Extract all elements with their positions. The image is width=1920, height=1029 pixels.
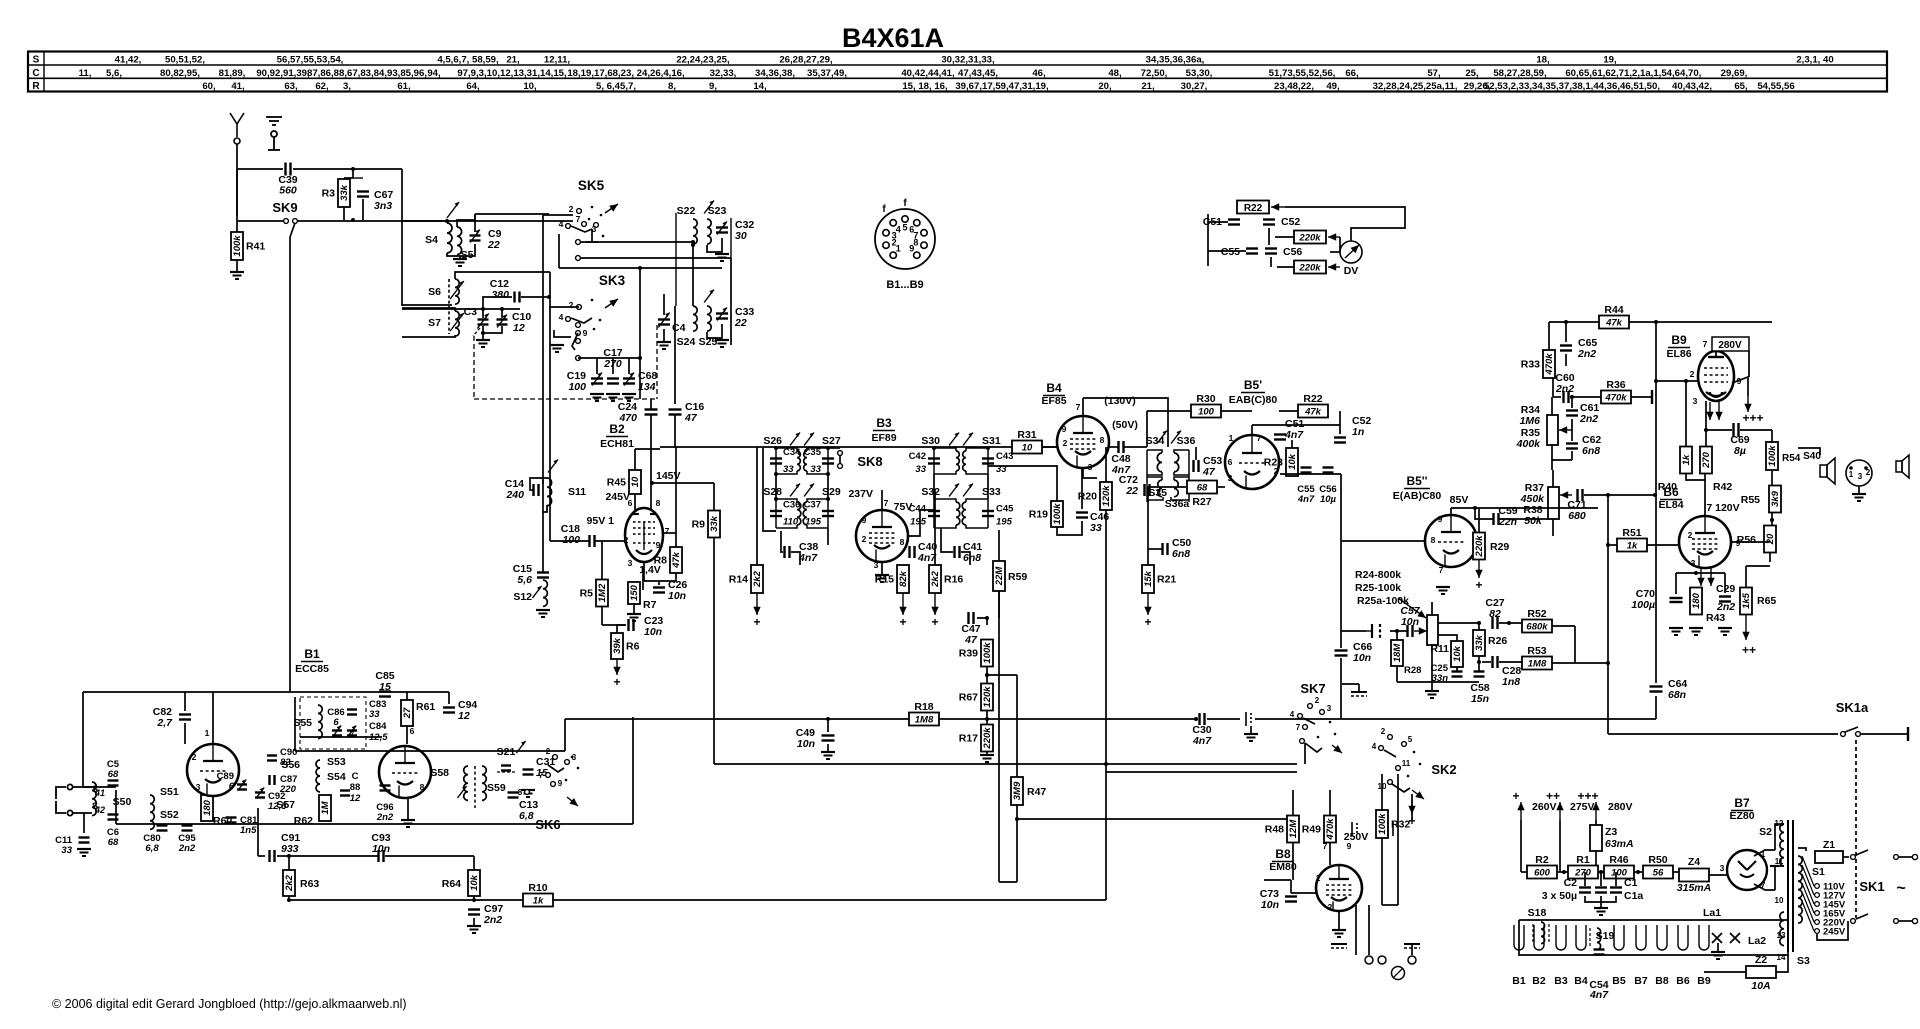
svg-text:7: 7 xyxy=(1439,565,1444,575)
transformer core xyxy=(1788,820,1793,952)
svg-text:R65: R65 xyxy=(1757,595,1776,607)
resistor R60 xyxy=(201,795,213,821)
svg-text:8: 8 xyxy=(1431,535,1436,545)
wire R20 up xyxy=(1105,447,1107,482)
wire B8 cathode xyxy=(1338,911,1340,930)
SK7 lever a xyxy=(1303,718,1315,724)
SK5 contact 3 xyxy=(594,223,599,228)
svg-text:6n8: 6n8 xyxy=(1172,548,1190,560)
svg-text:23,48,22,: 23,48,22, xyxy=(1274,81,1314,92)
svg-text:2n2: 2n2 xyxy=(1555,383,1574,395)
wire SK5 row2 xyxy=(578,241,693,243)
svg-text:2: 2 xyxy=(862,534,867,544)
svg-text:10: 10 xyxy=(1775,896,1784,905)
svg-text:15n: 15n xyxy=(1471,693,1489,705)
svg-text:SK5: SK5 xyxy=(578,178,605,193)
wire IF bus xyxy=(660,446,1058,448)
svg-text:6: 6 xyxy=(410,726,415,736)
SK3 stub wire xyxy=(554,330,571,337)
wire R32 up xyxy=(1381,774,1383,810)
svg-text:C43: C43 xyxy=(996,451,1013,462)
wire SK9 down long xyxy=(289,237,291,692)
svg-text:4: 4 xyxy=(1290,710,1295,719)
svg-text:7: 7 xyxy=(1703,339,1708,349)
svg-text:EL84: EL84 xyxy=(1658,499,1683,511)
SK5 lever xyxy=(571,226,592,232)
wire R64 down xyxy=(473,896,475,900)
wire S27 to contact xyxy=(828,447,840,449)
arrow +260V xyxy=(1517,802,1524,820)
svg-text:7: 7 xyxy=(539,771,544,780)
svg-text:S33: S33 xyxy=(982,486,1001,498)
wire SK9 to SK5 xyxy=(298,220,573,222)
wire B5p anode xyxy=(1251,425,1253,435)
capacitor C97 xyxy=(468,910,480,915)
svg-text:95V 1: 95V 1 xyxy=(587,515,615,527)
svg-text:12M: 12M xyxy=(1288,819,1299,839)
SK2 contact 4 xyxy=(1379,746,1384,751)
wire R63 up xyxy=(288,856,290,870)
wire R52 R53 join xyxy=(1574,626,1576,663)
capacitor C87 xyxy=(270,775,275,785)
transformer winding heater xyxy=(1780,912,1784,946)
ground C17b xyxy=(606,394,620,401)
svg-text:S12: S12 xyxy=(513,591,532,603)
svg-text:S21: S21 xyxy=(497,746,516,758)
svg-text:2: 2 xyxy=(1381,727,1386,736)
svg-text:3k9: 3k9 xyxy=(1770,490,1781,507)
wire elco gnd xyxy=(1600,896,1602,908)
svg-text:2n2: 2n2 xyxy=(1579,413,1598,425)
socket pin 7 xyxy=(921,230,927,236)
node x640 C17 xyxy=(638,356,642,360)
SK1a contact b xyxy=(1856,732,1861,737)
wire C91 right xyxy=(277,855,289,857)
SK1 contact a xyxy=(1851,855,1856,860)
svg-text:S23: S23 xyxy=(708,205,727,217)
svg-text:C45: C45 xyxy=(996,504,1014,515)
capacitor C6 xyxy=(108,815,119,820)
node SK5 x640 xyxy=(638,266,642,270)
resistor R51 xyxy=(1617,527,1647,552)
resistor R20 xyxy=(1078,482,1112,510)
svg-text:33: 33 xyxy=(1090,522,1102,534)
trimmer arrow C9 xyxy=(470,230,480,243)
svg-text:3: 3 xyxy=(196,782,201,792)
svg-text:R25-100k: R25-100k xyxy=(1355,582,1401,594)
svg-text:3 x 50µ: 3 x 50µ xyxy=(1542,890,1577,902)
wire C60 left xyxy=(1553,396,1561,398)
wire r10 bus xyxy=(289,899,1106,901)
svg-text:R61: R61 xyxy=(416,701,435,713)
wire C67 top branch xyxy=(353,177,363,179)
SK1 lever a xyxy=(1856,850,1868,855)
svg-text:9: 9 xyxy=(583,328,588,338)
svg-text:11: 11 xyxy=(1402,759,1411,768)
svg-text:65,: 65, xyxy=(1734,81,1748,92)
svg-text:53,30,: 53,30, xyxy=(1186,68,1213,79)
svg-text:56: 56 xyxy=(1653,868,1664,879)
svg-text:3: 3 xyxy=(1228,473,1233,483)
wire Z2 left xyxy=(1704,971,1746,973)
wire C28 right xyxy=(1499,661,1522,663)
wire SK1 b xyxy=(1899,920,1912,922)
svg-text:SK1a: SK1a xyxy=(1836,700,1869,715)
svg-text:S40: S40 xyxy=(1803,451,1821,462)
arrow +++ B9 xyxy=(1744,396,1751,412)
wire C1a drop xyxy=(1615,872,1617,886)
wire C73 to B8 xyxy=(1291,892,1316,894)
SK3 contact f xyxy=(576,356,581,361)
resistor Z4 xyxy=(1679,856,1709,882)
capacitor C95 xyxy=(182,826,193,831)
svg-text:100µ: 100µ xyxy=(1631,599,1655,611)
wire R47 up xyxy=(1016,675,1018,777)
capacitor C26 xyxy=(653,588,665,593)
svg-text:3: 3 xyxy=(1088,462,1093,472)
node S29 tr xyxy=(826,497,830,501)
wire B4 anode xyxy=(1082,398,1084,416)
capacitor C30 xyxy=(1200,713,1205,725)
node S22 bottom xyxy=(691,243,695,247)
svg-text:S53: S53 xyxy=(327,756,346,768)
SK1 terminal b xyxy=(1912,918,1917,923)
svg-text:3: 3 xyxy=(1858,472,1863,481)
svg-text:R44: R44 xyxy=(1604,304,1623,316)
svg-text:C52: C52 xyxy=(1281,216,1300,228)
wire C91 up left xyxy=(257,808,259,856)
svg-text:DV: DV xyxy=(1344,265,1359,277)
svg-text:6,8: 6,8 xyxy=(519,810,534,822)
wire x402 to S6 xyxy=(401,305,403,307)
svg-text:E(AB)C80: E(AB)C80 xyxy=(1393,490,1442,502)
node C10 top xyxy=(500,307,504,311)
node C28 tap xyxy=(1477,660,1481,664)
wire elco gnd bus xyxy=(1585,896,1616,902)
ground C70 xyxy=(1669,628,1683,635)
svg-text:15k: 15k xyxy=(1143,570,1154,587)
socket pin 6 xyxy=(914,220,920,226)
ground R7 xyxy=(627,614,641,621)
label 280V box xyxy=(1712,337,1749,351)
svg-text:SK1: SK1 xyxy=(1859,879,1884,894)
wire C3 gnd xyxy=(482,333,484,340)
svg-text:1k5: 1k5 xyxy=(1741,592,1752,609)
IF3 can rails xyxy=(1147,450,1189,502)
svg-text:2: 2 xyxy=(569,204,574,214)
resistor R56 xyxy=(1764,526,1776,553)
wire fb vertical a xyxy=(1607,495,1609,734)
wire C53 drop xyxy=(1195,447,1197,460)
svg-text:B8: B8 xyxy=(1275,847,1291,861)
svg-text:47k: 47k xyxy=(1304,407,1322,418)
wire R53 to fb xyxy=(1575,662,1608,664)
resistor R21 xyxy=(1142,565,1176,593)
svg-text:C55: C55 xyxy=(1221,246,1240,258)
IF can S32 S33 trim arrow right xyxy=(963,484,973,497)
wire B4 anode to 130V xyxy=(1083,398,1168,447)
wire sk7cap gnd xyxy=(1250,726,1252,734)
transformer tap 220V xyxy=(1802,892,1814,922)
wire pot top xyxy=(1431,602,1433,615)
capacitor C3 xyxy=(478,320,489,325)
S58 S59 core dashes xyxy=(474,766,476,808)
wire R16 up xyxy=(934,490,936,565)
wire Z2 right xyxy=(1776,955,1788,972)
wire C27 right xyxy=(1499,622,1522,624)
node C71 x1608 xyxy=(1606,493,1610,497)
resistor R62 xyxy=(319,795,331,821)
transformer primary S1 xyxy=(1798,856,1802,923)
ground B8 xyxy=(1332,930,1346,937)
tube socket B1..B9 circle xyxy=(875,209,935,269)
svg-text:9: 9 xyxy=(1062,424,1067,434)
wire B5p pin2 out xyxy=(1280,473,1341,475)
svg-text:1: 1 xyxy=(896,243,901,253)
resistor R46 xyxy=(1604,854,1634,879)
svg-text:22,24,23,25,: 22,24,23,25, xyxy=(676,55,730,66)
SK3 contact 2 xyxy=(577,305,582,310)
IF can S26 S27 trim arrow left xyxy=(790,433,800,446)
socket pin 8 xyxy=(921,242,927,248)
wire B1 top bus xyxy=(83,691,290,693)
svg-text:1: 1 xyxy=(1316,873,1321,883)
wire B1 box left xyxy=(115,790,117,824)
wire R8 bottom xyxy=(644,573,676,581)
capacitor C85 xyxy=(379,692,391,697)
wire C60 right xyxy=(1570,396,1601,398)
transformer tap 245V xyxy=(1802,901,1814,931)
svg-text:B5: B5 xyxy=(1612,975,1626,987)
wire pot top xyxy=(1551,397,1553,415)
resistor R11 xyxy=(1451,641,1463,667)
coil S6 xyxy=(455,279,459,304)
wire to S4 xyxy=(402,220,447,222)
svg-text:10n: 10n xyxy=(1261,899,1279,911)
wire SK1a right xyxy=(1861,733,1908,735)
svg-text:12: 12 xyxy=(350,793,361,804)
wire S32 down xyxy=(940,528,942,545)
capacitor C91 xyxy=(270,850,275,862)
svg-text:4: 4 xyxy=(1372,742,1377,751)
capacitor C4 xyxy=(658,320,670,325)
svg-text:47k: 47k xyxy=(671,551,682,569)
svg-text:33: 33 xyxy=(783,464,794,475)
svg-text:R50: R50 xyxy=(1648,854,1667,866)
SK2 lever b xyxy=(1392,784,1410,792)
resistor Z3 xyxy=(1590,825,1602,851)
svg-text:+: + xyxy=(899,615,906,629)
SK6 dots xyxy=(565,756,580,782)
node S26 bl xyxy=(774,472,778,476)
capacitor C86 xyxy=(332,731,342,736)
svg-text:6: 6 xyxy=(1228,457,1233,467)
wire R47 R59 join xyxy=(999,881,1017,883)
resistor R49 xyxy=(1302,816,1336,843)
wire C47 to R39 xyxy=(977,618,987,625)
svg-text:6n8: 6n8 xyxy=(963,552,981,564)
svg-text:220k: 220k xyxy=(1298,233,1321,244)
svg-text:B9: B9 xyxy=(1671,333,1687,347)
svg-text:33k: 33k xyxy=(1474,634,1485,651)
svg-text:8: 8 xyxy=(900,537,905,547)
SK2 contact 11 xyxy=(1396,766,1401,771)
resistor R7 xyxy=(628,582,640,604)
capacitor C80 xyxy=(157,826,168,831)
resistor R26 xyxy=(1473,630,1485,656)
svg-text:68: 68 xyxy=(108,769,119,780)
wire C4 down xyxy=(663,329,665,342)
svg-text:S36a: S36a xyxy=(1165,498,1190,510)
wire S31 out xyxy=(988,465,1058,467)
wire C93 right xyxy=(385,855,474,857)
transformer tap 110V xyxy=(1802,856,1814,886)
svg-text:+: + xyxy=(613,675,620,689)
chassis SK7 top xyxy=(1351,692,1367,696)
svg-text:++: ++ xyxy=(1546,789,1560,803)
svg-text:195: 195 xyxy=(910,517,927,528)
svg-text:195: 195 xyxy=(805,517,822,528)
wire R19 C46 join xyxy=(1057,521,1082,535)
wire S5 to SK5 xyxy=(475,213,549,215)
svg-text:S28: S28 xyxy=(763,486,782,498)
wire avc 772 xyxy=(1106,771,1297,773)
svg-text:41,42,: 41,42, xyxy=(115,55,142,66)
svg-text:34,36,38,: 34,36,38, xyxy=(755,68,795,79)
svg-text:SK7: SK7 xyxy=(1300,681,1325,696)
wire C73 up xyxy=(1290,880,1292,893)
svg-text:Z3: Z3 xyxy=(1605,826,1617,838)
svg-text:4n7: 4n7 xyxy=(1192,735,1212,747)
svg-text:26,28,27,29,: 26,28,27,29, xyxy=(779,55,833,66)
svg-text:+: + xyxy=(931,615,938,629)
wire din gnd xyxy=(1858,486,1860,494)
ground C11 xyxy=(77,849,91,856)
coil S7 xyxy=(455,311,459,336)
ground DIN xyxy=(1852,494,1866,501)
trimmer arrow C10 xyxy=(497,315,507,328)
wire psu bus a xyxy=(1557,871,1568,873)
IF can S28 S29 trim arrow right xyxy=(804,484,814,497)
resistor R36 xyxy=(1601,379,1631,404)
coil S18 xyxy=(1541,922,1545,944)
wire B4 pin8 to C48 xyxy=(1109,446,1118,448)
svg-text:82: 82 xyxy=(1489,608,1501,620)
ground C32 xyxy=(715,254,729,261)
svg-text:33: 33 xyxy=(369,709,380,720)
node psu c xyxy=(1636,870,1640,874)
ground C19 xyxy=(590,394,604,401)
svg-text:62,: 62, xyxy=(315,81,329,92)
chassis under B8 left xyxy=(1331,944,1347,948)
svg-text:R42: R42 xyxy=(1713,481,1732,493)
node R39 bottom xyxy=(985,673,989,677)
wire S1 top to Z1 xyxy=(1798,848,1806,851)
wire 260V to R2 xyxy=(1521,871,1527,873)
node C12 right xyxy=(547,295,551,299)
svg-text:B6: B6 xyxy=(1663,485,1679,499)
wire C39 to node xyxy=(293,168,402,170)
capacitor C48 xyxy=(1119,441,1124,453)
svg-text:(130V): (130V) xyxy=(1104,395,1136,407)
transformer tap 165V xyxy=(1802,883,1814,913)
coil S25 xyxy=(707,306,711,331)
trimmer arrow C4 xyxy=(658,313,669,328)
wire pot tap2 xyxy=(1438,635,1457,641)
svg-text:10k: 10k xyxy=(1287,453,1298,470)
wire C59 in xyxy=(1475,508,1493,519)
svg-text:SK3: SK3 xyxy=(599,273,626,288)
arrow to volume pot xyxy=(1398,598,1426,618)
svg-text:14,: 14, xyxy=(753,81,767,92)
node avc 819 xyxy=(1015,817,1019,821)
svg-text:1M8: 1M8 xyxy=(915,715,934,726)
wire B6 anode xyxy=(1704,474,1706,516)
wire gnd stub S4 xyxy=(459,256,461,259)
svg-text:100k: 100k xyxy=(982,642,993,664)
wire R33 down xyxy=(1552,378,1554,397)
wire IF1 rail left mid xyxy=(775,474,777,499)
wire C66 down xyxy=(1340,658,1342,719)
wire C38 right lead xyxy=(791,552,800,565)
capacitor C51b xyxy=(1274,435,1286,440)
svg-text:52,53,2,33,34,35,37,38,1,44,36: 52,53,2,33,34,35,37,38,1,44,36,46,51,50, xyxy=(1484,81,1660,92)
wire S4S5 bottom xyxy=(447,253,475,256)
wire C2 drop xyxy=(1584,872,1586,886)
node R40 g1 xyxy=(1684,379,1688,383)
svg-text:8: 8 xyxy=(518,788,523,797)
svg-text:29,69,: 29,69, xyxy=(1721,68,1748,79)
wire S11 wrap xyxy=(530,478,547,490)
wire to S6 xyxy=(402,304,452,306)
wire R41 to ground xyxy=(236,260,238,272)
resistor R42 xyxy=(1700,447,1712,474)
svg-text:5, 6,45,7,: 5, 6,45,7, xyxy=(596,81,636,92)
wire down to term a xyxy=(1368,905,1370,955)
node R39 top xyxy=(985,616,989,620)
wire C30 right xyxy=(1207,718,1240,720)
trimmer arrow C68 xyxy=(624,373,634,386)
coil S4 xyxy=(447,223,452,253)
socket pin 3 xyxy=(883,230,889,236)
capacitor C38 xyxy=(785,546,790,558)
wire C11 drop xyxy=(83,813,85,833)
svg-text:48,: 48, xyxy=(1108,68,1122,79)
wire C38 left lead xyxy=(781,545,783,552)
svg-text:5,6,: 5,6, xyxy=(106,68,122,79)
svg-text:10n: 10n xyxy=(644,626,662,638)
node C57 left xyxy=(1395,629,1399,633)
SK1 contact b xyxy=(1894,855,1899,860)
phono jack circle xyxy=(1392,967,1405,980)
svg-text:195: 195 xyxy=(996,517,1013,528)
wire S28 down xyxy=(780,531,782,545)
resistor R23 xyxy=(1264,448,1298,476)
svg-text:R22: R22 xyxy=(1244,203,1263,214)
wire R52 right xyxy=(1552,625,1575,627)
svg-text:68: 68 xyxy=(108,837,119,848)
capacitor C68 xyxy=(623,379,635,384)
svg-text:R49: R49 xyxy=(1302,824,1321,836)
dashed diag C3 xyxy=(473,328,480,336)
svg-text:ECC85: ECC85 xyxy=(295,663,329,675)
SK6 contact 7 xyxy=(546,773,551,778)
svg-text:R63: R63 xyxy=(300,878,319,890)
terminal strip top rail xyxy=(1519,919,1788,921)
volume pot R24 xyxy=(1427,615,1438,645)
svg-text:R47: R47 xyxy=(1027,786,1046,798)
svg-text:6,8: 6,8 xyxy=(145,843,159,854)
